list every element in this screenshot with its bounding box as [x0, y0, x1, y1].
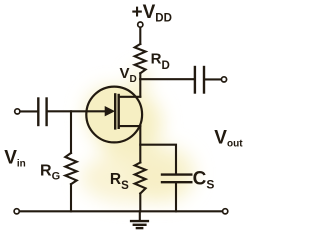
capacitor Cin left plate	[37, 99, 39, 126]
wire Cin to gate	[48, 110, 108, 112]
transistor gate arrow	[105, 107, 114, 116]
terminal bottom-right	[223, 209, 228, 214]
svg-text:VD: VD	[120, 65, 137, 85]
wire VD node to output capacitor	[140, 78, 193, 80]
svg-text:CS: CS	[193, 169, 215, 192]
transistor gate bar	[114, 94, 116, 128]
ground bar 3	[137, 227, 142, 229]
svg-text:Vin: Vin	[4, 147, 26, 169]
transistor Q1 body circle	[86, 87, 142, 143]
terminal VDD	[138, 22, 143, 27]
terminal output	[221, 77, 226, 82]
wire source node to CS branch	[140, 145, 176, 174]
wire top supply	[139, 27, 141, 44]
capacitor CS bottom plate	[162, 181, 191, 183]
svg-text:+VDD: +VDD	[132, 2, 172, 24]
ground rail wire	[20, 210, 223, 212]
ground stub	[139, 211, 141, 220]
wire drain	[139, 79, 141, 96]
ground bar 2	[134, 224, 146, 226]
terminal bottom-left	[14, 209, 19, 214]
svg-text:Vout: Vout	[214, 127, 243, 149]
wire RG to ground rail	[70, 184, 72, 211]
resistor RD	[135, 44, 146, 73]
wire CS to ground rail	[175, 183, 177, 211]
resistor RS	[135, 163, 146, 194]
wire Cout to output terminal	[205, 78, 221, 80]
transistor channel bar	[117, 95, 119, 128]
wire RD to VD node	[139, 73, 141, 79]
svg-text:RG: RG	[40, 163, 60, 183]
transistor drain lead inside	[119, 96, 141, 98]
svg-text:RD: RD	[151, 51, 170, 72]
ground bar 1	[131, 220, 148, 222]
wire input terminal to Cin	[20, 110, 37, 112]
wire source down	[139, 126, 141, 162]
terminal input	[15, 109, 20, 114]
capacitor Cout right plate	[203, 67, 205, 93]
resistor RG	[65, 153, 76, 184]
capacitor Cout left plate	[194, 67, 196, 93]
capacitor Cin right plate	[45, 99, 47, 126]
capacitor CS top plate	[162, 173, 191, 175]
wire RS to ground rail	[139, 194, 141, 212]
transistor source lead inside	[119, 125, 141, 127]
yellow highlight blob	[81, 69, 195, 203]
wire R_G junction vertical	[70, 111, 72, 153]
